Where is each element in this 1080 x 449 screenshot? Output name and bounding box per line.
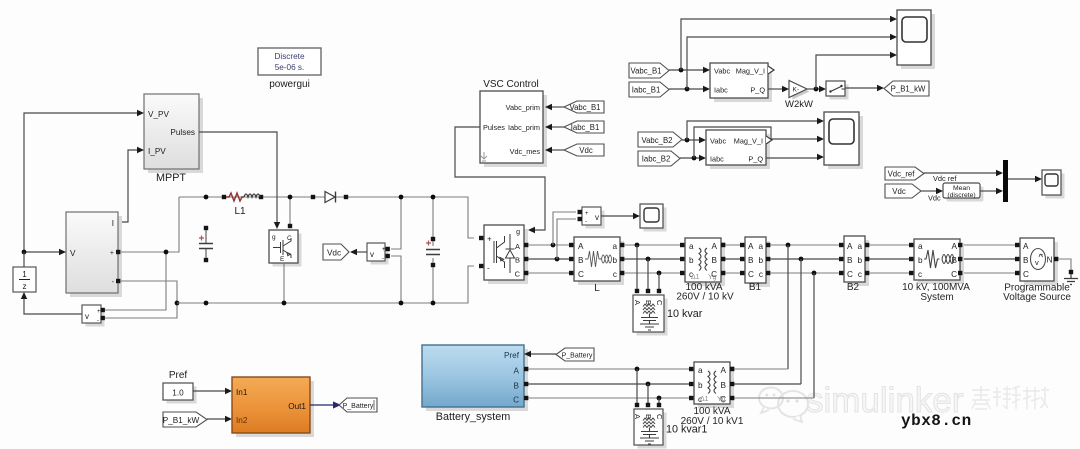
wire battery C to T2 bbox=[528, 397, 690, 399]
programmable voltage source bbox=[1003, 238, 1071, 303]
wire switch to goto bbox=[845, 87, 877, 89]
voltage measurement v2 (mirrored) bbox=[367, 243, 390, 265]
svg-text:b: b bbox=[612, 256, 617, 265]
wire mux to scope3 bbox=[1008, 178, 1035, 180]
svg-text:v: v bbox=[1035, 258, 1039, 267]
wire phase B VSC to L bbox=[528, 258, 570, 260]
system impedance block bbox=[902, 239, 970, 303]
svg-text:Δ1: Δ1 bbox=[691, 274, 700, 281]
svg-text:Yg: Yg bbox=[717, 396, 726, 403]
risers to battery transformer bbox=[788, 245, 814, 398]
PV array block bbox=[66, 212, 122, 297]
svg-text:C: C bbox=[578, 270, 584, 279]
powergui block bbox=[258, 48, 321, 90]
transformer T2 bbox=[681, 362, 744, 427]
from tag Vdc (to VSC) bbox=[545, 144, 604, 156]
svg-text:b: b bbox=[857, 256, 862, 265]
svg-text:Iabc_prim: Iabc_prim bbox=[508, 123, 540, 132]
10 kvar load block bbox=[633, 295, 668, 336]
inductor L1 pads bbox=[222, 195, 226, 199]
svg-text:B: B bbox=[1023, 256, 1029, 265]
gain W2kW bbox=[785, 81, 813, 111]
svg-text:A: A bbox=[721, 366, 727, 375]
node riser I2 bbox=[692, 156, 697, 161]
wire phase C L to xfmr1 bbox=[624, 272, 681, 274]
svg-text:b: b bbox=[758, 256, 763, 265]
transformer T1 bbox=[676, 238, 734, 303]
svg-text:Iabc: Iabc bbox=[710, 155, 724, 164]
svg-text:Iabc: Iabc bbox=[714, 86, 728, 95]
node collector bbox=[288, 195, 293, 200]
svg-text:Out1: Out1 bbox=[288, 402, 306, 411]
wire phase C VSC to L bbox=[528, 272, 570, 274]
svg-text:B1: B1 bbox=[749, 282, 762, 293]
svg-text:Battery_system: Battery_system bbox=[436, 411, 510, 423]
wire PV plus to top rail bbox=[120, 197, 179, 252]
node kvar1 tap C bbox=[657, 396, 662, 401]
svg-text:B: B bbox=[847, 256, 853, 265]
wires T2 to risers bbox=[734, 368, 788, 370]
wire PV minus down bbox=[105, 281, 177, 318]
svg-text:C: C bbox=[515, 270, 521, 279]
svg-text:I: I bbox=[112, 219, 114, 228]
svg-text:c: c bbox=[918, 270, 922, 279]
wire Iabc_B2 to meas2 bbox=[680, 157, 699, 159]
svg-text:A: A bbox=[748, 242, 754, 251]
wire IGBT collector to rail bbox=[289, 197, 291, 226]
wire PV plus tap to v1 plus bbox=[105, 252, 166, 310]
wire P_B1_kW to In2 bbox=[207, 418, 225, 420]
bottom DC rail bbox=[177, 266, 474, 303]
svg-text:c: c bbox=[613, 270, 617, 279]
svg-text:Vdc: Vdc bbox=[928, 194, 941, 203]
from tag Iabc_B1 (to VSC) bbox=[545, 121, 604, 133]
scope S2 bbox=[824, 112, 863, 169]
svg-text:B: B bbox=[748, 256, 754, 265]
voltage measurement v3 bbox=[578, 207, 605, 229]
svg-text:Discrete: Discrete bbox=[274, 52, 304, 61]
svg-text:+: + bbox=[110, 250, 114, 257]
svg-text:a: a bbox=[758, 242, 763, 251]
goto tag P_B1_kW bbox=[884, 81, 929, 96]
svg-text:(discrete): (discrete) bbox=[947, 192, 975, 199]
wire v3 to scope bbox=[601, 215, 633, 217]
MPPT block bbox=[144, 94, 203, 184]
node vmeas B tap bbox=[555, 257, 560, 262]
svg-text:-: - bbox=[487, 264, 490, 273]
wire P_Q2 to scope2 in3 bbox=[766, 157, 817, 159]
inductor coil of L1 bbox=[244, 194, 260, 197]
svg-text:-: - bbox=[97, 318, 99, 324]
svg-text:In2: In2 bbox=[236, 416, 248, 425]
svg-text:B: B bbox=[515, 256, 520, 265]
node C2 bottom bbox=[431, 301, 436, 306]
svg-text:E: E bbox=[280, 256, 285, 263]
from tag Vdc_ref bbox=[885, 167, 924, 180]
VSC converter U1 bbox=[479, 225, 528, 284]
svg-text:z: z bbox=[22, 282, 26, 291]
svg-text:C: C bbox=[655, 414, 664, 420]
wire Vabc_B2 to meas2 bbox=[682, 139, 699, 141]
battery system block bbox=[422, 345, 528, 423]
svg-text:260V / 10 kV1: 260V / 10 kV1 bbox=[681, 416, 744, 427]
svg-text:10 kvar: 10 kvar bbox=[667, 308, 703, 320]
wire Out1 to P_Battery goto (navy) bbox=[310, 404, 334, 406]
from tag P_Battery (to battery) bbox=[524, 348, 594, 361]
voltage measurement v1 (mirrored) bbox=[82, 305, 105, 327]
svg-text:C: C bbox=[655, 300, 664, 306]
wire I_PV from PV I output bbox=[118, 150, 137, 222]
svg-text:Voltage Source: Voltage Source bbox=[1003, 292, 1071, 303]
svg-text:-: - bbox=[585, 219, 587, 225]
svg-text:P_Battery: P_Battery bbox=[562, 353, 593, 360]
wires T1 to B1 bbox=[725, 244, 742, 246]
top DC rail bbox=[179, 197, 474, 238]
wire constant to In1 bbox=[193, 390, 225, 392]
svg-text:A: A bbox=[514, 367, 520, 376]
svg-text:C: C bbox=[951, 270, 957, 279]
wire Iabc_B1 to meas bbox=[669, 88, 703, 90]
watermark CJK strokes bbox=[972, 386, 1049, 409]
svg-text:Vdc_ref: Vdc_ref bbox=[888, 170, 916, 179]
node kvar1 tap B bbox=[646, 382, 651, 387]
svg-text:P_B1_kW: P_B1_kW bbox=[891, 85, 926, 94]
svg-text:N: N bbox=[1047, 256, 1053, 265]
svg-text:A: A bbox=[952, 242, 958, 251]
from tag Vabc_B1 (top) bbox=[629, 63, 669, 78]
wire Vdc_ref to mux bbox=[924, 172, 996, 174]
svg-text:Vdc: Vdc bbox=[892, 187, 906, 196]
svg-text:C: C bbox=[1023, 270, 1029, 279]
node bottom rail start bbox=[175, 301, 180, 306]
goto tag Vdc bbox=[323, 244, 349, 260]
svg-text:v: v bbox=[370, 250, 374, 259]
svg-text:Iabc_B1: Iabc_B1 bbox=[632, 86, 661, 95]
from tag Iabc_B1 (top) bbox=[629, 82, 669, 97]
svg-text:a: a bbox=[689, 242, 694, 251]
svg-text:K-: K- bbox=[793, 87, 800, 94]
taps down to 10 kvar1 bbox=[637, 369, 659, 405]
svg-text:Vabc_B1: Vabc_B1 bbox=[569, 103, 600, 112]
svg-text:C: C bbox=[748, 270, 754, 279]
measurement block M1 bbox=[710, 63, 774, 102]
svg-text:Vabc: Vabc bbox=[710, 137, 726, 146]
svg-text:a: a bbox=[918, 242, 923, 251]
wire riser to scope2 in2 bbox=[694, 127, 817, 158]
wire phase A VSC to L bbox=[528, 244, 570, 246]
svg-text:A: A bbox=[578, 242, 584, 251]
node C1 bottom bbox=[204, 301, 209, 306]
wire V_PV feedback bbox=[24, 113, 137, 252]
node scope riser A bbox=[679, 68, 684, 73]
svg-text:Vabc_B2: Vabc_B2 bbox=[641, 136, 672, 145]
wire V input to PV bbox=[24, 251, 59, 253]
svg-text:b: b bbox=[918, 256, 923, 265]
wire tap to v3 plus bbox=[553, 212, 576, 245]
from tag Iabc_B2 bbox=[638, 151, 680, 166]
svg-text:B: B bbox=[721, 381, 727, 390]
wire 1/z out up to node bbox=[23, 252, 25, 267]
node batt tap B bbox=[799, 257, 804, 262]
svg-text:g: g bbox=[516, 229, 520, 236]
node riser V2 bbox=[685, 138, 690, 143]
svg-text:+: + bbox=[487, 235, 492, 244]
capacitor C1 bbox=[199, 226, 213, 262]
wire phase B L to xfmr1 bbox=[624, 258, 681, 260]
svg-text:A: A bbox=[847, 242, 853, 251]
svg-text:Iabc_B1: Iabc_B1 bbox=[571, 123, 600, 132]
svg-text:P_Q: P_Q bbox=[750, 86, 765, 95]
svg-text:A: A bbox=[1023, 242, 1029, 251]
node vmeas A tap bbox=[551, 243, 556, 248]
watermark logo speech bubbles bbox=[759, 388, 808, 423]
svg-text:b: b bbox=[698, 381, 703, 390]
svg-text:Iabc_B2: Iabc_B2 bbox=[642, 155, 671, 164]
svg-text:a: a bbox=[612, 242, 617, 251]
svg-text:1: 1 bbox=[22, 270, 27, 279]
wire N to ground bbox=[1058, 259, 1071, 271]
scope S3 bbox=[1042, 170, 1065, 199]
svg-text:B2: B2 bbox=[847, 282, 860, 293]
wires B1 to B2 bbox=[770, 244, 841, 246]
diode D1 bbox=[311, 192, 348, 203]
svg-text:v: v bbox=[595, 213, 599, 222]
node kvar tap C bbox=[657, 271, 662, 276]
svg-text:Mag_V_I: Mag_V_I bbox=[734, 137, 763, 146]
svg-text:Vabc_prim: Vabc_prim bbox=[506, 103, 540, 112]
svg-text:Vabc: Vabc bbox=[714, 67, 730, 76]
svg-text:C: C bbox=[513, 396, 519, 405]
wire taps down to 10 kvar bbox=[637, 245, 659, 291]
10 kvar1 load block bbox=[633, 409, 667, 449]
wires system to source bbox=[964, 244, 1016, 246]
svg-text:Pref: Pref bbox=[169, 370, 188, 381]
svg-text:c: c bbox=[858, 270, 862, 279]
three-phase series RL branch L bbox=[569, 237, 624, 294]
wire riser to scope2 in1 bbox=[687, 121, 817, 140]
wire battery B to T2 bbox=[528, 383, 690, 385]
svg-text:Mag_V_I: Mag_V_I bbox=[736, 67, 765, 76]
svg-text:W2kW: W2kW bbox=[785, 99, 813, 110]
wire DC tap to v2 plus bbox=[391, 197, 401, 249]
wire mean to mux bbox=[980, 190, 996, 192]
wire IGBT emitter to bottom rail bbox=[283, 263, 285, 303]
svg-text:Vdc_mes: Vdc_mes bbox=[510, 147, 541, 156]
node batt tap A bbox=[786, 243, 791, 248]
wire gain to switch bbox=[807, 88, 819, 90]
svg-text:A: A bbox=[633, 300, 642, 305]
node scope riser P bbox=[814, 87, 819, 92]
wire riser to scope1 in3 bbox=[816, 55, 890, 89]
wire VSC Control pulses to converter gate bbox=[455, 127, 545, 230]
wire battery A to T2 bbox=[528, 368, 690, 370]
svg-text:System: System bbox=[920, 292, 953, 303]
wire DC tap to v2 minus bbox=[391, 256, 401, 303]
svg-text:V: V bbox=[70, 249, 76, 258]
mux bar bbox=[1003, 160, 1008, 202]
svg-text:P_B1_kW: P_B1_kW bbox=[163, 416, 200, 425]
svg-text:V_PV: V_PV bbox=[148, 110, 169, 119]
svg-text:Yg: Yg bbox=[708, 274, 717, 281]
measurement B2 bbox=[839, 236, 869, 293]
wire riser to scope1 in1 bbox=[681, 19, 890, 70]
VSC Control block bbox=[480, 79, 547, 167]
wire tap to v3 minus bbox=[557, 219, 576, 259]
scope S4 bbox=[640, 204, 667, 232]
capacitor C2 bbox=[426, 197, 440, 303]
unit delay 1/z bbox=[13, 267, 36, 292]
measurement B1 bbox=[740, 237, 770, 293]
wire Vdc to mean bbox=[921, 190, 936, 192]
svg-text:Pref: Pref bbox=[504, 351, 520, 360]
from tag Vabc_B1 (to VSC) bbox=[545, 101, 604, 113]
svg-text:a: a bbox=[857, 242, 862, 251]
svg-text:I_PV: I_PV bbox=[148, 147, 166, 156]
svg-text:c: c bbox=[759, 270, 763, 279]
wire v2 to Vdc goto bbox=[356, 251, 367, 253]
manual switch bbox=[826, 81, 849, 100]
svg-text:Vdc: Vdc bbox=[579, 146, 593, 155]
node C2 top bbox=[431, 195, 436, 200]
svg-text:a: a bbox=[698, 366, 703, 375]
from tag Vdc (bottom) bbox=[885, 184, 921, 198]
node kvar tap A bbox=[635, 243, 640, 248]
node kvar1 tap A bbox=[635, 367, 640, 372]
svg-text:B: B bbox=[514, 382, 520, 391]
svg-text:VSC Control: VSC Control bbox=[483, 79, 539, 90]
ground symbol bbox=[1064, 270, 1078, 285]
node plus tap bbox=[164, 250, 169, 255]
from tag Vabc_B2 bbox=[638, 132, 682, 147]
node batt tap C bbox=[812, 271, 817, 276]
svg-text:B: B bbox=[578, 256, 584, 265]
wire P_Q to gain bbox=[768, 88, 782, 90]
svg-text:v: v bbox=[85, 312, 89, 321]
svg-text:powergui: powergui bbox=[269, 79, 310, 90]
svg-text:+: + bbox=[382, 247, 386, 253]
node C1 top bbox=[204, 195, 209, 200]
svg-text:MPPT: MPPT bbox=[156, 172, 186, 184]
mean block bbox=[943, 183, 984, 202]
node scope riser B bbox=[685, 87, 690, 92]
node emitter bbox=[282, 301, 287, 306]
svg-text:Vdc: Vdc bbox=[327, 249, 341, 258]
svg-text:P_Q: P_Q bbox=[748, 155, 763, 164]
svg-text:5e-06 s.: 5e-06 s. bbox=[275, 63, 305, 72]
svg-text:Pulses: Pulses bbox=[170, 128, 195, 137]
constant 1.0 bbox=[163, 383, 197, 404]
wire MPPT pulses to IGBT gate bbox=[199, 132, 277, 222]
node tap bottom bbox=[399, 301, 404, 306]
wires B2 to system bbox=[869, 244, 911, 246]
svg-text:P_Battery: P_Battery bbox=[343, 403, 374, 410]
svg-text:-: - bbox=[382, 256, 384, 262]
svg-text:+: + bbox=[97, 309, 101, 315]
measurement block M2 bbox=[706, 130, 772, 169]
svg-text:In1: In1 bbox=[236, 388, 248, 397]
wire riser to scope1 in2 bbox=[687, 37, 890, 89]
svg-text:Δ1: Δ1 bbox=[700, 396, 709, 403]
svg-text:L1: L1 bbox=[234, 206, 246, 217]
resistor of L1 (red zigzag) bbox=[226, 193, 244, 201]
svg-text:g: g bbox=[272, 234, 276, 241]
node tap top bbox=[399, 195, 404, 200]
svg-text:C: C bbox=[847, 270, 853, 279]
wire v1 output to 1/z input bbox=[24, 299, 82, 314]
svg-text:Pulses: Pulses bbox=[483, 123, 505, 132]
svg-text:L: L bbox=[594, 283, 600, 294]
from tag P_B1_kW bbox=[163, 412, 207, 427]
node V junction bbox=[22, 250, 27, 255]
svg-text:1.0: 1.0 bbox=[172, 389, 184, 398]
svg-text:+: + bbox=[585, 211, 589, 217]
controller subsystem (orange) bbox=[232, 377, 314, 437]
IGBT Q1 block bbox=[269, 230, 302, 267]
svg-text:A: A bbox=[712, 242, 718, 251]
svg-text:Vdc ref: Vdc ref bbox=[933, 174, 957, 183]
svg-text:b: b bbox=[689, 256, 694, 265]
goto tag P_Battery bbox=[339, 398, 377, 412]
scope S1 bbox=[897, 10, 935, 69]
svg-text:ybx8.cn: ybx8.cn bbox=[901, 412, 972, 430]
svg-text:A: A bbox=[515, 242, 520, 251]
svg-text:Vabc_B1: Vabc_B1 bbox=[630, 67, 661, 76]
node kvar tap B bbox=[646, 257, 651, 262]
svg-text:Mean: Mean bbox=[953, 185, 970, 192]
svg-text:260V / 10 kV: 260V / 10 kV bbox=[676, 292, 734, 303]
svg-text:B: B bbox=[712, 256, 718, 265]
svg-text:A: A bbox=[633, 414, 642, 419]
wire Vabc_B1 to meas bbox=[669, 69, 703, 71]
wire phase A L to xfmr1 bbox=[624, 244, 681, 246]
